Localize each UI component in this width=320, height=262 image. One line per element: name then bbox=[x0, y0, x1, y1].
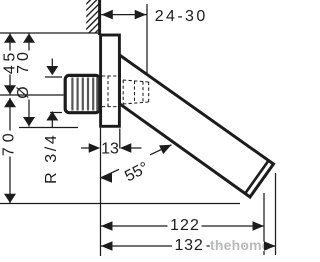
svg-text:Ø 70: Ø 70 bbox=[15, 48, 32, 99]
svg-text:122: 122 bbox=[170, 217, 200, 234]
svg-text:24-30: 24-30 bbox=[155, 8, 208, 25]
svg-text:13: 13 bbox=[101, 141, 119, 158]
svg-text:R 3/4: R 3/4 bbox=[43, 133, 60, 184]
svg-text:thehome: thehome bbox=[210, 237, 270, 253]
svg-text:132: 132 bbox=[174, 237, 203, 254]
svg-text:70: 70 bbox=[0, 128, 17, 156]
